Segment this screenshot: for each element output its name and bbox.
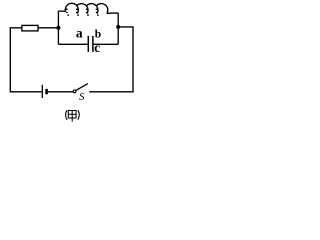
battery lead to switch — [48, 91, 73, 93]
wire right vertical between coil and capacitor — [117, 13, 119, 44]
capacitor plate right — [92, 36, 94, 52]
inductor L coil lead right — [107, 12, 118, 15]
svg-text:b: b — [95, 29, 101, 41]
wire left vertical between coil and capacitor — [57, 11, 59, 45]
wire capacitor left lead — [58, 43, 88, 45]
inductor L coil lead left — [58, 10, 65, 12]
wire right rail from node to bottom — [89, 27, 133, 92]
svg-text:c: c — [94, 40, 100, 55]
battery short plate (-) — [45, 89, 48, 94]
battery long plate (+) — [41, 85, 43, 98]
wire top-left horizontal and left rail — [10, 28, 58, 92]
svg-text:S: S — [79, 91, 85, 103]
inductor L loop 2 — [76, 4, 88, 14]
label (甲) caption: drawn 甲 glyph — [68, 111, 76, 122]
inductor L loop 4 — [96, 4, 108, 14]
node left junction dot — [56, 26, 60, 30]
label (甲) caption: left paren — [66, 110, 67, 120]
label (甲) caption: right paren — [78, 110, 79, 120]
inductor L loop 1 — [65, 3, 78, 13]
capacitor plate left — [87, 36, 89, 52]
wire capacitor right lead — [93, 43, 118, 45]
switch S arm — [76, 84, 88, 91]
resistor R — [22, 25, 38, 31]
svg-text:a: a — [76, 26, 83, 41]
inductor L loop 3 — [86, 4, 98, 14]
switch S pivot — [73, 90, 76, 93]
node right junction dot — [116, 25, 120, 29]
